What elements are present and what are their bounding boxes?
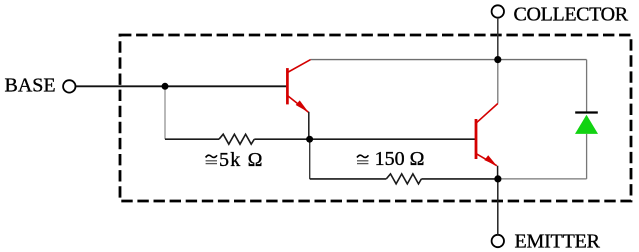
wire base node down (164, 86, 166, 139)
junction node collector rail (494, 56, 501, 63)
transistor Q2 collector limb (476, 104, 498, 124)
transistor Q1 collector limb (287, 60, 310, 73)
junction node base (162, 83, 169, 90)
wire 5k row left (165, 138, 219, 140)
wire Q1 emitter down (308, 112, 310, 139)
wire diode top vertical (586, 60, 588, 113)
label 150 approx symbol (357, 155, 368, 163)
label 5k approx symbol (206, 155, 217, 163)
transistor Q1 base bar (286, 68, 289, 104)
resistor 150 zigzag (386, 174, 421, 184)
wire Q2 emitter down (497, 166, 499, 179)
svg-text:150 Ω: 150 Ω (375, 148, 425, 170)
transistor Q2 emitter arrow (484, 155, 496, 166)
diode D1 triangle (575, 115, 598, 134)
transistor Q2 base bar (475, 119, 478, 159)
svg-text:COLLECTOR: COLLECTOR (514, 3, 629, 25)
svg-text:BASE: BASE (5, 75, 56, 97)
wire 150 row left (310, 178, 387, 180)
wire node down to 150 row (309, 139, 311, 179)
terminal EMITTER (492, 235, 504, 247)
diode D1 cathode bar (575, 111, 598, 113)
wire 5k row right to Q2 base (254, 138, 476, 140)
wire 150 row right (421, 178, 497, 180)
wire collector drop (497, 18, 499, 60)
resistor 5k zigzag (219, 134, 254, 144)
transistor Q1 emitter arrow (296, 100, 309, 112)
wire base input (76, 85, 287, 87)
transistor Q2 emitter limb (476, 154, 497, 166)
wire emitter drop (497, 179, 499, 235)
wire top rail (311, 59, 587, 61)
junction node Q1 emitter / 5k (306, 136, 313, 143)
wire diode bottom vertical (586, 134, 588, 179)
junction node emitter rail (494, 175, 501, 182)
wire Q2 collector vertical (497, 60, 499, 104)
dashed package outline (120, 35, 631, 201)
transistor Q1 emitter limb (287, 96, 308, 113)
svg-text:EMITTER: EMITTER (515, 231, 601, 252)
svg-text:5k Ω: 5k Ω (219, 149, 264, 171)
terminal COLLECTOR (492, 5, 504, 17)
terminal BASE (63, 80, 75, 92)
wire bottom right horizontal (498, 178, 587, 180)
